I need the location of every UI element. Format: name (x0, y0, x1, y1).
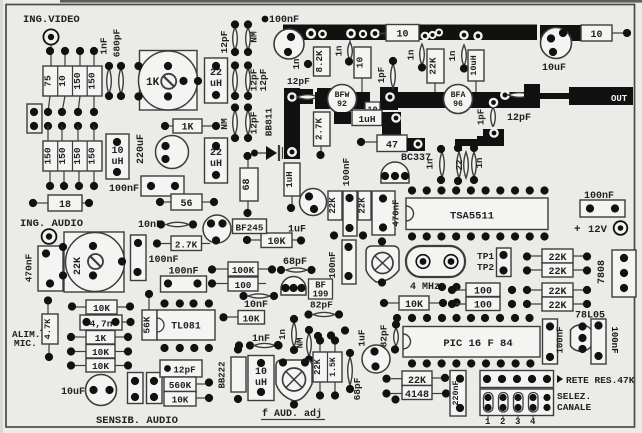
svg-text:1uF: 1uF (357, 329, 368, 346)
node row2 (30, 108, 98, 116)
trimmer 22K pads (59, 242, 126, 280)
resistor 4.7K (42, 296, 58, 361)
label TP1 (477, 251, 494, 262)
pad (287, 92, 297, 102)
svg-text:10K: 10K (92, 347, 109, 358)
misc nodes (327, 326, 349, 339)
capacitor 22 twin (454, 144, 468, 185)
capacitor 1n e (470, 144, 485, 184)
capacitor 12pF r2b (244, 61, 269, 100)
label 68pF b (352, 377, 363, 400)
varicap BB222 (218, 345, 247, 403)
pad (287, 147, 297, 157)
resistor 22K pic (382, 371, 449, 387)
capacitor 1uF c (362, 345, 390, 373)
regulator 7808 (597, 250, 636, 297)
svg-text:10uF: 10uF (542, 63, 566, 74)
label 100nF c2 (169, 267, 199, 278)
resistor 22K r4 (523, 297, 591, 312)
pad (421, 29, 443, 41)
svg-text:96: 96 (453, 100, 463, 109)
svg-text:92: 92 (337, 100, 347, 109)
resistor 22K v (427, 49, 444, 92)
label 68pF (283, 257, 307, 268)
svg-text:199: 199 (313, 290, 329, 300)
svg-text:10uH: 10uH (469, 55, 479, 75)
resistor 22K r3 (523, 283, 591, 298)
label CANALE (557, 402, 592, 413)
capacitor 1pF b (477, 98, 499, 137)
svg-text:100K: 100K (232, 265, 255, 276)
resistor 10K mid (243, 233, 305, 248)
label +12V (574, 224, 608, 236)
resistor 2.7K a (153, 236, 210, 251)
svg-text:8.2K: 8.2K (314, 50, 325, 73)
resistor 10 out (581, 25, 631, 41)
resistor 10 top (386, 25, 419, 42)
svg-text:12pF: 12pF (219, 30, 230, 53)
svg-text:470nF: 470nF (392, 199, 402, 226)
transistor BF245 (203, 215, 231, 245)
svg-text:1n: 1n (475, 158, 485, 169)
inductor 10uH b (248, 356, 274, 401)
resistor 22K la (328, 191, 342, 220)
resistor 100 b (448, 297, 516, 312)
IC PIC16F84 (403, 327, 540, 358)
svg-text:RETE RES.47K: RETE RES.47K (566, 375, 635, 386)
svg-text:150: 150 (87, 72, 98, 89)
svg-text:12pF: 12pF (173, 365, 196, 376)
svg-text:100nF: 100nF (341, 157, 352, 186)
svg-text:68: 68 (242, 178, 253, 190)
wire (50, 171, 94, 186)
label 78L05 (575, 311, 605, 322)
pad 12V (614, 221, 628, 235)
svg-text:1uH: 1uH (285, 171, 295, 187)
label ING.VIDEO (23, 14, 80, 26)
svg-text:SENSIB. AUDIO: SENSIB. AUDIO (96, 415, 178, 427)
label 1 2 3 4 (485, 415, 536, 427)
svg-text:10: 10 (396, 30, 408, 41)
svg-text:TP1: TP1 (477, 251, 494, 262)
resistor 10 b (365, 102, 380, 115)
capacitor 1n c (448, 45, 468, 73)
svg-text:22K: 22K (328, 197, 338, 214)
capacitor NM r1 (244, 20, 260, 56)
resistor network 75/10/150/150 (42, 66, 102, 96)
svg-text:10uF: 10uF (61, 387, 85, 398)
connector 2pad b (147, 373, 163, 404)
svg-text:1K: 1K (95, 333, 107, 344)
resistor 56 (156, 194, 218, 210)
svg-text:220uF: 220uF (136, 134, 147, 164)
svg-text:75: 75 (42, 75, 53, 87)
node row3 (30, 122, 98, 130)
svg-text:1nF: 1nF (99, 37, 110, 54)
capacitor 220nF (450, 371, 466, 417)
svg-text:22: 22 (455, 160, 465, 171)
svg-text:10K: 10K (267, 237, 285, 248)
trace mid bar (315, 92, 524, 109)
resistor 100 a (448, 283, 516, 298)
resistor 18 (29, 195, 93, 211)
svg-text:TL081: TL081 (171, 321, 201, 332)
capacitor 68pF b (346, 349, 354, 393)
capacitor 1n a (335, 42, 354, 66)
pad (500, 90, 510, 100)
pad (346, 29, 367, 39)
svg-text:10K: 10K (93, 303, 110, 314)
label 100nF v (341, 157, 352, 186)
resistor 10K s1 (68, 300, 134, 314)
varicap diode (251, 145, 283, 161)
label 1uF b (288, 225, 306, 236)
svg-text:TP2: TP2 (477, 262, 494, 273)
IC PIC bottom pins (408, 359, 535, 367)
capacitor 100nF (141, 176, 184, 196)
trace varicap (284, 88, 313, 159)
resistor 10K b (380, 296, 447, 311)
svg-text:100nF: 100nF (328, 251, 338, 278)
svg-text:4: 4 (530, 417, 536, 427)
capacitor 10uF audio (61, 375, 117, 406)
svg-text:+: + (574, 224, 581, 236)
svg-text:10: 10 (57, 75, 68, 87)
svg-text:NM: NM (296, 338, 306, 349)
svg-text:100nF: 100nF (269, 15, 299, 26)
trace OUT block (569, 87, 633, 105)
svg-text:2.7K: 2.7K (175, 240, 198, 251)
resistor 1K (161, 119, 220, 134)
transistor 1uF elec (300, 189, 327, 216)
inductor 22uH a (205, 58, 228, 103)
label 4 MHz (410, 282, 440, 293)
resistor 10K s4 (67, 359, 132, 373)
svg-text:220nF: 220nF (452, 381, 461, 406)
svg-text:1n: 1n (292, 59, 302, 70)
svg-text:10K: 10K (405, 300, 423, 311)
capacitor 100nF c2 (161, 276, 207, 292)
wire (48, 126, 94, 141)
capacitor 100nF lb (343, 191, 357, 236)
svg-text:100: 100 (235, 280, 252, 291)
resistor 56K (142, 290, 158, 340)
svg-text:TSA5511: TSA5511 (450, 211, 494, 223)
regulator 78L05 (571, 322, 595, 353)
label 12pF (507, 113, 531, 124)
label 10nF b (244, 300, 268, 311)
label BF199 (309, 279, 333, 300)
transistor BFA96 (444, 85, 473, 114)
svg-text:100nF: 100nF (109, 184, 139, 195)
capacitor 470nF (372, 191, 402, 235)
label 10nF (138, 220, 162, 231)
capacitor 100nF br (591, 319, 619, 364)
capacitor 10uF out (541, 28, 572, 59)
svg-text:1n: 1n (448, 51, 458, 62)
connector 2pad a (128, 373, 144, 404)
label 100nF c1 (149, 255, 179, 266)
trimmer 22K audio (64, 232, 125, 292)
label 1uF c (357, 329, 368, 346)
svg-text:56: 56 (180, 199, 192, 210)
resistor 100K (208, 262, 276, 276)
capacitor 4,7n (80, 315, 135, 330)
capacitor 1nF b (235, 341, 283, 349)
label BC337 (401, 153, 431, 164)
resistor 47 (357, 135, 407, 152)
svg-text:100: 100 (474, 301, 492, 312)
resistor 22K r2 (523, 263, 591, 278)
label BF245 (233, 219, 267, 234)
pad audio in (42, 229, 57, 244)
resistor 10K d (219, 311, 264, 325)
svg-text:22K: 22K (73, 257, 84, 275)
TL081 bottom pins (160, 344, 213, 352)
TL081 top pins (160, 299, 213, 307)
svg-text:10: 10 (111, 146, 123, 157)
label 220uF (136, 134, 147, 164)
resistor 10K e (164, 392, 213, 407)
capacitor 100nF r (580, 200, 625, 217)
capacitor 12pF r1 (219, 20, 239, 56)
testpoint block (497, 248, 512, 277)
svg-text:4.7K: 4.7K (43, 318, 53, 339)
svg-text:PIC 16 F 84: PIC 16 F 84 (443, 338, 512, 350)
svg-text:1n: 1n (278, 329, 288, 340)
label TP2 (477, 262, 494, 273)
trace out bar (540, 93, 570, 99)
trace RF top (283, 25, 537, 41)
svg-text:uH: uH (210, 159, 222, 170)
transistor BFW92 (328, 85, 357, 114)
svg-text:2: 2 (500, 417, 505, 427)
node cluster (438, 283, 475, 307)
resistor 560K (164, 377, 213, 392)
svg-text:10: 10 (590, 30, 602, 41)
svg-text:1uH: 1uH (358, 114, 375, 125)
label 1n t (292, 59, 312, 70)
capacitor 100nF bl (543, 319, 566, 364)
transistor BC337 (381, 162, 409, 183)
pad (370, 29, 388, 39)
trimmer video (366, 237, 399, 286)
svg-text:4,7n: 4,7n (90, 319, 113, 330)
IC TSA5511 top pins (408, 186, 549, 194)
connector block (27, 104, 42, 133)
svg-text:7808: 7808 (597, 260, 608, 284)
transistor top (274, 29, 304, 59)
svg-text:f AUD. adj: f AUD. adj (262, 408, 322, 420)
svg-text:470nF: 470nF (24, 253, 35, 282)
label ALIM. MIC. (12, 325, 46, 349)
svg-text:1K: 1K (181, 123, 193, 134)
trace (334, 112, 351, 124)
label 82pF a (310, 300, 333, 311)
capacitor 12pF box (160, 360, 202, 377)
svg-text:4 MHz: 4 MHz (410, 282, 440, 293)
svg-text:82pF: 82pF (310, 300, 333, 311)
node pins left (0, 0, 1, 1)
capacitor 1n b (407, 44, 427, 72)
trace out a (540, 25, 581, 41)
svg-text:680pF: 680pF (112, 28, 123, 57)
pad video input (43, 29, 58, 44)
label f AUD. adj (261, 408, 325, 420)
label SELEZ. (557, 391, 591, 402)
trace block b (477, 129, 503, 145)
resistor 22K lb (358, 191, 372, 220)
IC TSA5511 (406, 198, 548, 230)
trimmer 1K pads (134, 62, 202, 101)
svg-text:100nF: 100nF (556, 326, 566, 353)
pad (459, 30, 482, 40)
svg-text:BFW: BFW (335, 91, 350, 100)
resistor 1K s2 (67, 331, 132, 345)
pad (306, 28, 327, 38)
trace (382, 112, 401, 137)
capacitor 1nF (99, 37, 114, 100)
crystal 4MHz (406, 246, 465, 277)
svg-text:NM: NM (219, 118, 230, 130)
resistor 68 (240, 152, 258, 217)
inductor 1uH v (284, 163, 300, 212)
resistor 10 v (354, 47, 371, 92)
trace stub (380, 87, 398, 110)
inductor 22uH b (205, 138, 228, 183)
capacitor 12pF out (508, 90, 539, 100)
svg-text:1: 1 (485, 417, 491, 427)
label SENSIB. AUDIO (96, 415, 178, 427)
label 82pF b (379, 324, 390, 347)
svg-text:12pF: 12pF (507, 113, 531, 124)
svg-text:47: 47 (386, 141, 398, 152)
label 10uF (542, 63, 566, 74)
capacitor 10nF (157, 220, 197, 228)
inductor 1uH h (352, 110, 382, 126)
capacitor 12pF r3 (244, 103, 260, 142)
svg-text:MIC.: MIC. (14, 338, 37, 349)
label BB811 (264, 107, 275, 136)
svg-text:OUT: OUT (611, 94, 628, 104)
transistor BF199 (281, 277, 306, 296)
node row pic top (393, 314, 534, 322)
label 100nF (109, 184, 139, 195)
resistor 10K s3 (67, 345, 132, 359)
capacitor 12pF coupling (297, 88, 331, 106)
svg-text:1pF: 1pF (477, 109, 487, 125)
svg-text:100nF: 100nF (609, 326, 619, 353)
svg-text:560K: 560K (169, 380, 192, 391)
IC TSA5511 bottom pins (408, 232, 549, 240)
svg-text:1n: 1n (426, 159, 436, 170)
resistor 2.7K v (314, 112, 331, 159)
capacitor 12pF r2a (231, 61, 239, 100)
label 100nF (262, 15, 299, 26)
svg-text:uH: uH (210, 79, 222, 90)
svg-text:10: 10 (355, 57, 366, 69)
svg-text:10K: 10K (172, 395, 189, 406)
trace block (524, 84, 540, 108)
svg-text:uH: uH (111, 157, 123, 168)
diode 4148 (382, 386, 450, 404)
capacitor 470nF audio (24, 246, 64, 291)
connector header (480, 371, 554, 388)
node row4 (46, 182, 98, 190)
svg-text:BB222: BB222 (218, 361, 228, 388)
svg-text:22K: 22K (313, 358, 323, 375)
resistor network 150x4 (42, 141, 102, 171)
wire (349, 40, 351, 42)
svg-text:4148: 4148 (405, 390, 429, 401)
svg-text:2.7K: 2.7K (314, 117, 325, 140)
label 1nF b (252, 334, 270, 345)
pad (391, 113, 401, 123)
svg-text:ING. AUDIO: ING. AUDIO (20, 218, 83, 230)
svg-text:12pF: 12pF (258, 68, 269, 91)
svg-text:10K: 10K (92, 361, 109, 372)
svg-text:BFA: BFA (451, 91, 466, 100)
svg-text:150: 150 (87, 147, 98, 164)
label RETE RES.47K (557, 375, 635, 386)
svg-text:22K: 22K (548, 267, 566, 278)
svg-text:1.5K: 1.5K (329, 357, 338, 377)
trace bent (455, 129, 504, 151)
svg-text:10: 10 (255, 367, 267, 378)
svg-text:22K: 22K (428, 57, 439, 74)
svg-text:150: 150 (72, 72, 83, 89)
svg-text:12pF: 12pF (287, 76, 310, 87)
capacitor 1n f (278, 315, 298, 354)
svg-text:12V: 12V (588, 224, 608, 236)
svg-text:uH: uH (255, 378, 267, 389)
svg-text:ING.VIDEO: ING.VIDEO (23, 14, 80, 26)
capacitor 100nF v2 (328, 240, 356, 284)
svg-text:100: 100 (474, 287, 492, 298)
label 100nF (584, 191, 614, 202)
resistor 8.2K (314, 47, 331, 76)
svg-text:BB811: BB811 (264, 107, 275, 136)
capacitor NM r3 (219, 103, 239, 142)
capacitor 680pF (112, 28, 126, 100)
capacitor 82pF a (304, 310, 343, 318)
svg-text:3: 3 (515, 417, 520, 427)
wire (48, 96, 94, 112)
inductor 10uH v (468, 50, 484, 92)
svg-text:150: 150 (42, 147, 53, 164)
resistor 100 c (208, 277, 266, 291)
svg-text:CANALE: CANALE (557, 402, 592, 413)
label 12pF (287, 76, 310, 87)
label ING. AUDIO (20, 218, 83, 230)
IC TL081 (157, 310, 215, 340)
svg-text:18: 18 (59, 200, 71, 211)
svg-text:56K: 56K (142, 316, 153, 333)
capacitor 1n d (426, 145, 446, 184)
capacitor 10nF b (239, 292, 278, 300)
svg-text:22K: 22K (358, 197, 368, 214)
capacitor 220uF (156, 136, 189, 169)
svg-text:BF245: BF245 (236, 223, 264, 234)
svg-text:SELEZ.: SELEZ. (557, 391, 591, 402)
svg-text:68pF: 68pF (283, 257, 307, 268)
svg-text:1uF: 1uF (288, 225, 306, 236)
resistor 22K r1 (523, 249, 591, 264)
trimmer 1K (139, 51, 198, 111)
svg-text:10nF: 10nF (244, 300, 268, 311)
wire (51, 45, 94, 66)
svg-text:1pF: 1pF (377, 67, 387, 83)
